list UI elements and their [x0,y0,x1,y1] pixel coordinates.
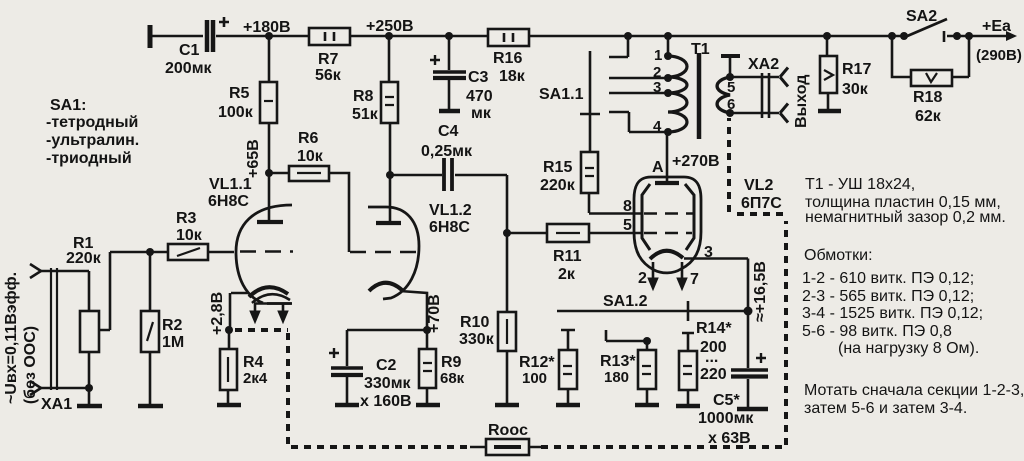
svg-text:470: 470 [466,88,493,105]
svg-text:51к: 51к [352,106,379,123]
switch SA1.2 bus [557,293,748,321]
svg-text:-тетродный: -тетродный [46,114,138,131]
svg-text:Мотать сначала секции 1-2-3,: Мотать сначала секции 1-2-3, [804,382,1024,399]
svg-text:200мк: 200мк [165,60,213,77]
svg-text:XA2: XA2 [748,56,779,73]
svg-text:330мк: 330мк [364,375,412,392]
svg-text:-ультралин.: -ультралин. [46,132,139,149]
svg-text:220к: 220к [540,177,576,194]
svg-text:C2: C2 [376,357,397,374]
resistor Rooc [470,422,541,455]
node SA2 out [953,32,961,40]
svg-text:~Uвх=0,11Вэфф.: ~Uвх=0,11Вэфф. [3,272,20,404]
resistor R15 [540,152,598,213]
node R18 right [965,32,973,40]
svg-text:А: А [652,159,664,176]
svg-text:R12*: R12* [519,354,555,371]
resistor R16 [488,29,529,85]
svg-text:(290В): (290В) [976,47,1022,64]
resistor R13 [600,330,656,404]
wire rail left [152,35,203,38]
resistor R18 [892,36,969,125]
svg-text:R16: R16 [493,50,522,67]
ground R17 [818,109,841,114]
svg-text:1M: 1M [162,334,184,351]
SA1.1 contact tetrode [609,36,628,57]
svg-text:затем 5-6 и затем 3-4.: затем 5-6 и затем 3-4. [804,400,967,417]
svg-text:SA1.2: SA1.2 [603,293,648,310]
node T1 top [664,32,672,40]
svg-text:+180В: +180В [243,19,291,36]
ground R2 [138,404,163,409]
resistor R12 [519,330,577,404]
resistor R8 [352,36,398,175]
resistor R14 [679,320,732,405]
wire VL2 cathode pin3 [684,244,748,311]
wire C2 to +70V node [347,329,427,332]
svg-text:R5: R5 [229,85,250,102]
svg-text:18к: 18к [499,68,526,85]
resistor R5 [218,36,277,173]
capacitor C2 [329,330,412,410]
wire R6 to VL1.2 grid [329,173,349,252]
ground R1 [77,404,102,409]
svg-text:C5*: C5* [713,392,740,409]
wire C4 down to R11 node [506,175,509,233]
ground R13 [635,403,659,408]
transformer T1 primary [653,36,710,136]
svg-text:5-6 - 98 витк. ПЭ 0,8: 5-6 - 98 витк. ПЭ 0,8 [802,323,952,340]
connector XA2 [730,56,810,128]
svg-text:≈+16,5В: ≈+16,5В [752,261,769,322]
svg-text:7: 7 [690,271,699,288]
svg-text:R18: R18 [913,89,942,106]
svg-text:+65В: +65В [245,139,262,178]
svg-text:R17: R17 [842,61,871,78]
svg-text:220: 220 [700,366,727,383]
svg-text:Обмотки:: Обмотки: [804,247,873,264]
ground R9 [416,403,440,408]
svg-text:R15: R15 [543,159,572,176]
wire XA1 bottom [41,388,89,405]
connector XA1 [3,264,72,413]
svg-text:мк: мк [471,105,492,122]
switch SA1.1 wiper [539,51,600,152]
transformer T1 secondary [717,56,740,117]
svg-text:1000мк: 1000мк [698,410,754,427]
svg-text:30к: 30к [842,81,869,98]
svg-text:10к: 10к [176,227,203,244]
svg-text:6Н8С: 6Н8С [208,193,249,210]
wire rail R16 to SA2 [529,35,904,38]
node R11/R10 [503,229,511,237]
svg-text:Выход: Выход [793,75,810,128]
svg-text:3: 3 [653,79,661,96]
svg-text:+250В: +250В [366,18,414,35]
capacitor C1 [165,17,229,77]
tube VL1.1 [208,173,293,330]
ground R14 [676,404,700,409]
svg-text:-триодный: -триодный [46,150,132,167]
svg-text:5: 5 [727,79,735,96]
svg-text:...: ... [705,349,718,366]
potentiometer R1 [66,235,110,388]
node SA1.1 top [624,32,632,40]
svg-text:68к: 68к [440,370,465,387]
svg-text:3-4 - 1525 витк. ПЭ 0,12;: 3-4 - 1525 витк. ПЭ 0,12; [802,305,983,322]
resistor R17 [820,36,871,109]
svg-text:SA2: SA2 [906,8,937,25]
svg-text:2к: 2к [558,266,576,283]
ground C3 [439,109,460,114]
svg-text:R14*: R14* [696,320,732,337]
node VL1.2 anode [386,171,394,179]
svg-text:x 160В: x 160В [360,393,412,410]
svg-text:R8: R8 [353,88,374,105]
node +70V [423,294,443,334]
svg-text:0,25мк: 0,25мк [421,143,473,160]
svg-text:56к: 56к [315,67,342,84]
transformer T1 core [697,53,702,139]
node +250V [366,18,414,40]
resistor R2 [141,252,184,405]
wire T1 tap4 to VL2 anode [666,132,669,181]
svg-text:+70В: +70В [426,294,443,333]
wire XA1 top to R1 [41,271,89,311]
svg-text:1: 1 [654,47,662,64]
resistor R6 [269,130,329,181]
svg-text:2к4: 2к4 [243,370,268,387]
svg-text:XA1: XA1 [41,396,72,413]
svg-text:8: 8 [623,198,632,215]
ground R10 [495,403,519,408]
svg-text:C1: C1 [179,42,200,59]
node R17 [823,32,831,40]
node +180V [243,19,291,40]
svg-text:4: 4 [653,118,662,135]
svg-text:10к: 10к [297,148,324,165]
arrow +Ea [976,18,1022,64]
node XA1 bottom [85,384,93,392]
feedback dashed wire bottom right [541,118,786,447]
wire R1 wiper to grid node [110,251,150,254]
heater arrows VL1.1 [250,304,288,323]
svg-text:180: 180 [604,369,629,386]
switch SA2 [888,8,947,42]
svg-text:VL1.2: VL1.2 [429,202,472,219]
svg-text:R7: R7 [318,51,339,68]
SA1.1 contact tap3 [609,92,668,95]
ground C2 [335,403,359,408]
svg-text:3: 3 [704,244,713,261]
svg-text:6: 6 [727,96,735,113]
SA1.1 contact triode [609,112,668,132]
svg-text:x 63В: x 63В [708,430,751,447]
svg-text:330к: 330к [459,331,495,348]
svg-text:Rooc: Rooc [488,422,528,439]
svg-text:R10: R10 [460,314,489,331]
svg-text:+270В: +270В [672,153,720,170]
svg-text:С3: С3 [468,69,489,86]
resistor R11 [507,224,643,283]
svg-text:VL1.1: VL1.1 [209,176,252,193]
svg-text:VL2: VL2 [744,177,773,194]
svg-text:62к: 62к [915,108,942,125]
svg-text:100к: 100к [218,104,254,121]
tube VL1.2 [350,175,472,330]
svg-text:R9: R9 [441,354,462,371]
svg-text:R11: R11 [553,248,582,265]
resistor R9 [419,330,465,404]
wire rail C1 to R7 [216,35,309,38]
svg-text:100: 100 [522,370,547,387]
resistor R3 [150,210,208,260]
svg-text:SA1:: SA1: [50,97,86,114]
svg-text:(на нагрузку 8 Ом).: (на нагрузку 8 Ом). [838,340,979,357]
ground R12 [556,403,580,408]
heater arrows VL2 [638,262,699,290]
svg-text:C4: C4 [438,123,459,140]
wire rail R7 to R16 [350,35,488,38]
wire rail SA2 to +Ea [947,35,1008,38]
svg-text:(без ООС): (без ООС) [22,326,39,404]
svg-text:220к: 220к [66,250,102,267]
svg-text:SA1.1: SA1.1 [539,86,584,103]
svg-text:1-2 - 610 витк. ПЭ 0,12;: 1-2 - 610 витк. ПЭ 0,12; [802,270,974,287]
svg-text:R4: R4 [243,354,264,371]
resistor R4 [220,330,268,404]
SA1.1 contact ultralinear [609,77,668,80]
svg-text:6П7С: 6П7С [741,195,782,212]
node +16,5V [744,261,770,322]
svg-text:+2,8В: +2,8В [209,292,226,335]
svg-text:2: 2 [638,270,647,287]
svg-text:немагнитный зазор 0,2 мм.: немагнитный зазор 0,2 мм. [805,209,1006,226]
node C3 [445,32,453,40]
svg-text:2-3 - 565 витк. ПЭ 0,12;: 2-3 - 565 витк. ПЭ 0,12; [802,288,974,305]
svg-text:+Ea: +Ea [982,18,1011,35]
node grid VL1.1 [146,248,154,256]
svg-text:R13*: R13* [600,353,636,370]
feedback dashed wire from +2,8V node [235,330,470,447]
svg-text:R6: R6 [298,130,319,147]
svg-text:R3: R3 [176,210,197,227]
ground R4 [217,403,241,408]
ground C5 [737,407,768,412]
tube VL2 [623,153,782,273]
capacitor C5 [698,311,768,447]
capacitor C4 [390,123,507,191]
wire R15 to VL2 screen [589,212,643,215]
svg-text:6Н8С: 6Н8С [429,219,470,236]
svg-text:R2: R2 [162,317,183,334]
input terminal [148,25,153,48]
svg-text:Т1 - УШ 18х24,: Т1 - УШ 18х24, [805,176,915,193]
svg-text:5: 5 [623,217,632,234]
capacitor C3 [430,36,493,122]
node +2,8V [209,292,233,335]
resistor R10 [459,233,516,404]
resistor R7 [309,28,350,84]
node VL1.1 anode [245,139,273,178]
